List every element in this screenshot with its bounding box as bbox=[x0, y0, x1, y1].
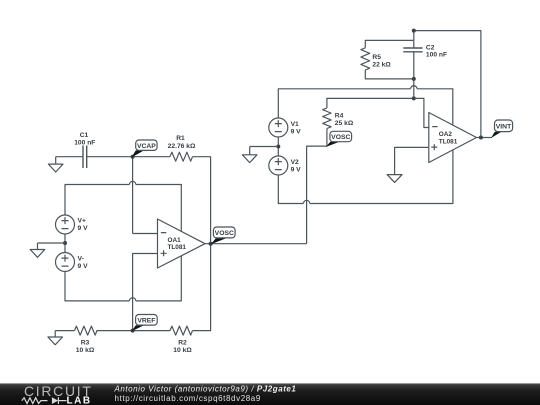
svg-text:R2: R2 bbox=[178, 339, 187, 346]
ground symbol (left of V1/V2) bbox=[242, 147, 257, 163]
junction dot R5/C2 bottom bbox=[412, 77, 416, 81]
node VREF flag bbox=[132, 325, 145, 331]
svg-text:C2: C2 bbox=[426, 44, 435, 51]
node VOSC flag bbox=[211, 238, 227, 244]
svg-text:R5: R5 bbox=[372, 54, 381, 61]
label R2 value bbox=[173, 339, 192, 354]
node VOSC (right) flag bbox=[326, 142, 340, 147]
svg-text:TL081: TL081 bbox=[439, 138, 458, 145]
wire VREF to R2 bbox=[133, 330, 170, 332]
svg-text:9 V: 9 V bbox=[291, 167, 302, 174]
wire junction to ground bbox=[38, 242, 66, 244]
svg-text:25 kΩ: 25 kΩ bbox=[335, 120, 354, 127]
node VOSC junction dot bbox=[209, 242, 213, 246]
wire R3 to ground bbox=[55, 330, 74, 332]
ground symbol (left of V+/V-) bbox=[30, 243, 45, 257]
CircuitLab logo diode triangle bbox=[52, 397, 58, 404]
wire inverting node to OA2 inverting input bbox=[414, 98, 429, 127]
wire junction to ground bbox=[250, 146, 279, 148]
svg-text:Antonio Victor (antoniovictor9: Antonio Victor (antoniovictor9a9) / PJ2g… bbox=[114, 384, 297, 393]
label OA1 bbox=[168, 237, 187, 251]
label R3 value bbox=[76, 339, 95, 354]
ground symbol (below OA2 +input) bbox=[387, 175, 402, 183]
resistor R3 bbox=[75, 326, 98, 335]
wire V- bottom to OA1 negative supply pin (hop over VREF wire) bbox=[65, 256, 181, 301]
wire VOSC riser up to R4 bottom bbox=[307, 146, 327, 244]
wire OA1 output to VOSC riser bbox=[205, 243, 307, 245]
svg-text:C1: C1 bbox=[80, 132, 89, 139]
ground symbol (below R3) bbox=[48, 331, 63, 345]
voltage source V2 bbox=[269, 156, 288, 175]
node VREF junction dot bbox=[131, 329, 135, 333]
svg-text:22 kΩ: 22 kΩ bbox=[372, 62, 391, 69]
svg-text:9 V: 9 V bbox=[78, 263, 89, 270]
node VCAP flag bbox=[132, 150, 145, 157]
svg-text:V-: V- bbox=[78, 256, 84, 263]
junction dot top node bbox=[412, 29, 416, 33]
resistor R5 bbox=[361, 48, 370, 70]
op-amp OA1 TL081 bbox=[158, 219, 206, 268]
label R1 value bbox=[168, 135, 196, 150]
voltage source V1 bbox=[269, 118, 288, 137]
svg-text:10 kΩ: 10 kΩ bbox=[173, 347, 192, 354]
svg-text:100 nF: 100 nF bbox=[426, 52, 447, 59]
wire R2 up to VOSC column bbox=[193, 244, 211, 331]
svg-text:R4: R4 bbox=[335, 112, 344, 119]
wire V+ top to OA1 positive supply pin (hop over VCAP wire) bbox=[65, 181, 181, 231]
wire R5 bottom to bottom node bbox=[365, 70, 414, 79]
label V2 value bbox=[291, 159, 302, 174]
svg-text:V+: V+ bbox=[78, 218, 86, 225]
wire R4 top to inverting node bbox=[327, 98, 414, 108]
svg-text:OA2: OA2 bbox=[439, 131, 453, 138]
svg-text:VINT: VINT bbox=[496, 124, 512, 131]
wire inverting node up to R5/C2 bottom node bbox=[413, 79, 415, 99]
svg-text:10 kΩ: 10 kΩ bbox=[76, 347, 95, 354]
node VCAP label bbox=[136, 140, 157, 150]
footer bar bbox=[0, 383, 540, 405]
wire ground to C1 left plate bbox=[56, 156, 83, 158]
node VREF label bbox=[136, 315, 158, 326]
svg-text:R3: R3 bbox=[81, 339, 90, 346]
svg-text:VOSC: VOSC bbox=[331, 134, 350, 141]
svg-text:9 V: 9 V bbox=[291, 129, 302, 136]
svg-text:100 nF: 100 nF bbox=[74, 139, 95, 146]
svg-text:9 V: 9 V bbox=[78, 225, 89, 232]
label V1 value bbox=[291, 121, 302, 136]
label C1 value bbox=[74, 132, 95, 146]
wire V+ bottom to V- top bbox=[64, 234, 66, 253]
svg-text:R1: R1 bbox=[176, 135, 185, 142]
wire VCAP junction down to OA1 inverting input bbox=[133, 157, 158, 234]
capacitor C2 bbox=[403, 48, 422, 52]
wire VREF to R3 bbox=[97, 330, 133, 332]
junction dot OA2 output bbox=[479, 136, 483, 140]
node VOSC (right) label bbox=[330, 131, 352, 141]
svg-text:OA1: OA1 bbox=[168, 237, 182, 244]
op-amp OA2 TL081 bbox=[429, 113, 477, 163]
wire V1 bottom to V2 top bbox=[277, 137, 279, 156]
wire R5 top to top node bbox=[365, 40, 414, 47]
resistor R4 bbox=[323, 108, 331, 128]
capacitor C1 bbox=[83, 146, 87, 169]
svg-text:22.76 kΩ: 22.76 kΩ bbox=[168, 143, 196, 150]
svg-text:http://circuitlab.com/cspq6t8d: http://circuitlab.com/cspq6t8dv28a9 bbox=[115, 394, 261, 403]
svg-text:VREF: VREF bbox=[137, 317, 155, 324]
resistor R1 bbox=[170, 152, 193, 161]
label V+ value bbox=[78, 218, 89, 233]
svg-text:VOSC: VOSC bbox=[215, 230, 234, 237]
node VINT flag bbox=[491, 132, 502, 138]
wire OA1 non-inverting input down to VREF bbox=[133, 254, 158, 331]
svg-text:LAB: LAB bbox=[67, 396, 92, 405]
junction between V+ and V- bbox=[63, 241, 67, 245]
wire OA2 non-inverting input to ground bbox=[395, 147, 429, 174]
node VINT label bbox=[495, 120, 513, 132]
wire C2 verticals bbox=[413, 31, 415, 79]
voltage source V+ bbox=[56, 215, 75, 234]
wire V1 top to OA2 positive supply pin (hop over C2/R5 column) bbox=[278, 86, 453, 125]
resistor R2 bbox=[170, 326, 193, 335]
wire V2 bottom to OA2 negative supply pin (hop over VOSC riser) bbox=[278, 150, 453, 204]
wire C1 to VCAP junction to R1 bbox=[87, 156, 170, 158]
node VCAP junction dot bbox=[131, 155, 135, 159]
svg-text:V1: V1 bbox=[291, 121, 299, 128]
label R5 value bbox=[372, 54, 391, 69]
junction dot inverting node bbox=[412, 96, 416, 100]
ground symbol (left of C1) bbox=[48, 157, 63, 172]
node VOSC label bbox=[213, 227, 235, 238]
wire R1 to feedback corner down to OA1 output bbox=[193, 157, 211, 244]
label V- value bbox=[78, 256, 89, 271]
svg-text:V2: V2 bbox=[291, 159, 299, 166]
label R4 value bbox=[335, 112, 354, 127]
wire R4 bottom to VOSC corner bbox=[326, 129, 328, 147]
svg-text:VCAP: VCAP bbox=[137, 143, 156, 150]
CircuitLab logo waveform (resistor + diode) bbox=[22, 397, 67, 404]
label OA2 bbox=[439, 131, 458, 145]
label C2 value bbox=[426, 44, 447, 58]
wire top node to OA2 output (feedback) bbox=[414, 31, 481, 138]
junction between V1 and V2 bbox=[276, 145, 280, 149]
svg-text:TL081: TL081 bbox=[168, 244, 187, 251]
voltage source V- bbox=[56, 253, 75, 272]
wire OA2 output stub bbox=[477, 137, 493, 139]
